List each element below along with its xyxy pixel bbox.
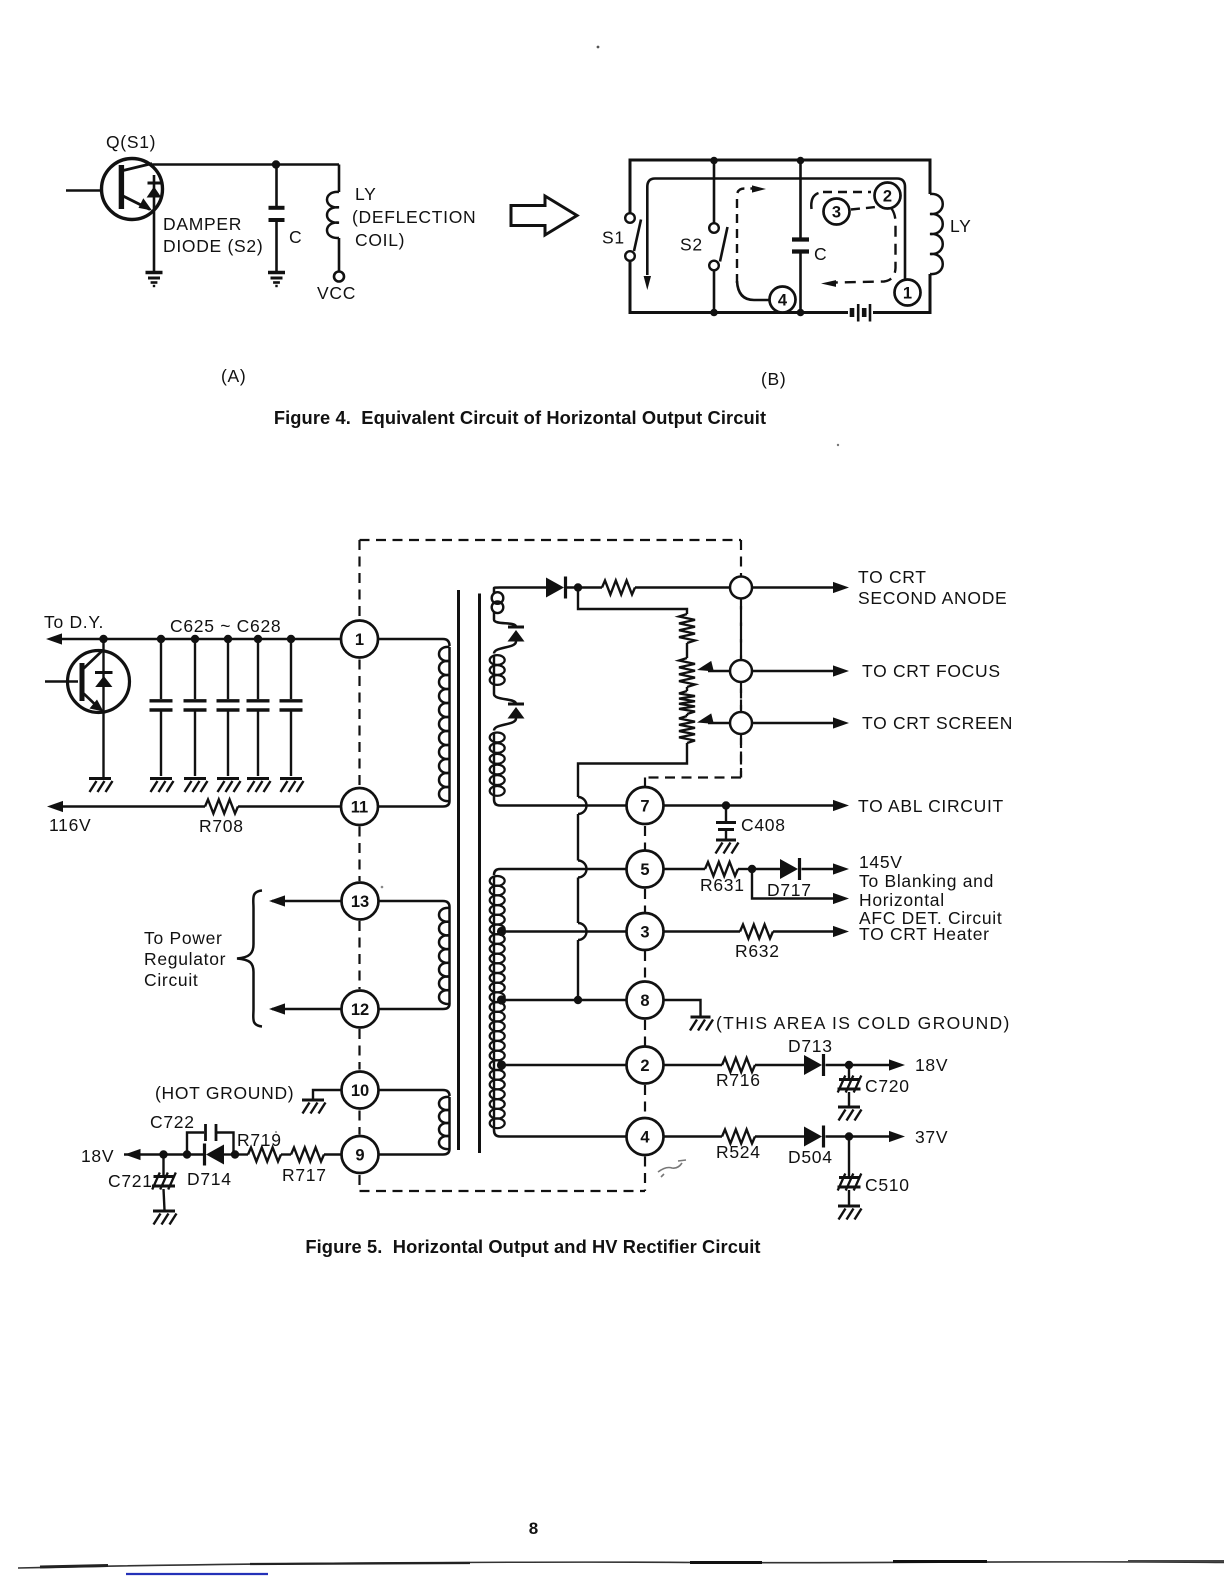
svg-text:VCC: VCC [317, 283, 356, 303]
svg-text:R708: R708 [199, 816, 244, 836]
svg-text:TO CRT Heater: TO CRT Heater [859, 924, 990, 944]
svg-text:1: 1 [355, 631, 364, 649]
svg-text:C: C [289, 227, 302, 247]
svg-text:18V: 18V [81, 1146, 114, 1166]
svg-text:(A): (A) [221, 366, 246, 386]
svg-text:R716: R716 [716, 1070, 761, 1090]
svg-text:Q(S1): Q(S1) [106, 132, 156, 152]
svg-text:C720: C720 [865, 1076, 910, 1096]
svg-text:S2: S2 [680, 235, 703, 255]
svg-text:TO CRT: TO CRT [858, 567, 927, 587]
svg-text:TO ABL CIRCUIT: TO ABL CIRCUIT [858, 796, 1004, 816]
svg-text:LY: LY [355, 184, 377, 204]
svg-text:R631: R631 [700, 875, 745, 895]
svg-text:DAMPER: DAMPER [163, 214, 242, 234]
svg-text:18V: 18V [915, 1055, 948, 1075]
svg-text:1: 1 [903, 285, 912, 303]
svg-text:8: 8 [640, 992, 649, 1010]
svg-text:C408: C408 [741, 815, 786, 835]
svg-text:37V: 37V [915, 1127, 948, 1147]
svg-text:Figure 5. Horizontal Output a: Figure 5. Horizontal Output and HV Recti… [305, 1236, 760, 1257]
svg-text:7: 7 [640, 798, 649, 816]
svg-text:C625 ~ C628: C625 ~ C628 [170, 616, 281, 636]
svg-text:(DEFLECTION: (DEFLECTION [352, 207, 476, 227]
svg-text:To Blanking and: To Blanking and [859, 871, 994, 891]
svg-text:10: 10 [351, 1082, 369, 1100]
svg-text:4: 4 [778, 292, 788, 310]
svg-text:5: 5 [640, 861, 649, 879]
svg-text:COIL): COIL) [355, 230, 405, 250]
svg-text:3: 3 [832, 204, 841, 222]
svg-text:Regulator: Regulator [144, 949, 226, 969]
svg-text:4: 4 [640, 1129, 650, 1147]
svg-text:8: 8 [529, 1519, 538, 1538]
svg-text:D504: D504 [788, 1147, 833, 1167]
svg-text:11: 11 [351, 799, 368, 817]
svg-text:R719: R719 [237, 1130, 282, 1150]
svg-text:D713: D713 [788, 1036, 833, 1056]
svg-text:3: 3 [640, 924, 649, 942]
svg-text:2: 2 [640, 1057, 649, 1075]
svg-text:C510: C510 [865, 1175, 910, 1195]
svg-text:Horizontal: Horizontal [859, 890, 945, 910]
svg-text:LY: LY [950, 216, 972, 236]
svg-text:R632: R632 [735, 941, 780, 961]
svg-text:Figure 4. Equivalent Circuit: Figure 4. Equivalent Circuit of Horizont… [274, 407, 766, 428]
svg-text:Circuit: Circuit [144, 970, 199, 990]
svg-text:TO CRT SCREEN: TO CRT SCREEN [862, 713, 1013, 733]
svg-text:(HOT GROUND): (HOT GROUND) [155, 1083, 294, 1103]
svg-text:To Power: To Power [144, 928, 223, 948]
svg-text:9: 9 [355, 1147, 364, 1165]
svg-text:To D.Y.: To D.Y. [44, 612, 104, 632]
svg-text:C: C [814, 244, 827, 264]
svg-text:116V: 116V [49, 815, 91, 835]
svg-text:C721: C721 [108, 1171, 153, 1191]
svg-text:C722: C722 [150, 1112, 195, 1132]
svg-text:145V: 145V [859, 852, 903, 872]
svg-text:R717: R717 [282, 1165, 327, 1185]
svg-text:(B): (B) [761, 369, 786, 389]
svg-text:DIODE (S2): DIODE (S2) [163, 236, 263, 256]
svg-text:12: 12 [351, 1001, 369, 1019]
svg-text:S1: S1 [602, 228, 625, 248]
svg-text:(THIS AREA IS COLD GROUND): (THIS AREA IS COLD GROUND) [716, 1013, 1011, 1033]
svg-text:2: 2 [883, 188, 892, 206]
svg-text:R524: R524 [716, 1142, 761, 1162]
svg-text:13: 13 [351, 893, 369, 911]
svg-text:D714: D714 [187, 1169, 232, 1189]
svg-text:D717: D717 [767, 880, 812, 900]
svg-text:SECOND ANODE: SECOND ANODE [858, 588, 1007, 608]
svg-text:TO CRT FOCUS: TO CRT FOCUS [862, 661, 1001, 681]
